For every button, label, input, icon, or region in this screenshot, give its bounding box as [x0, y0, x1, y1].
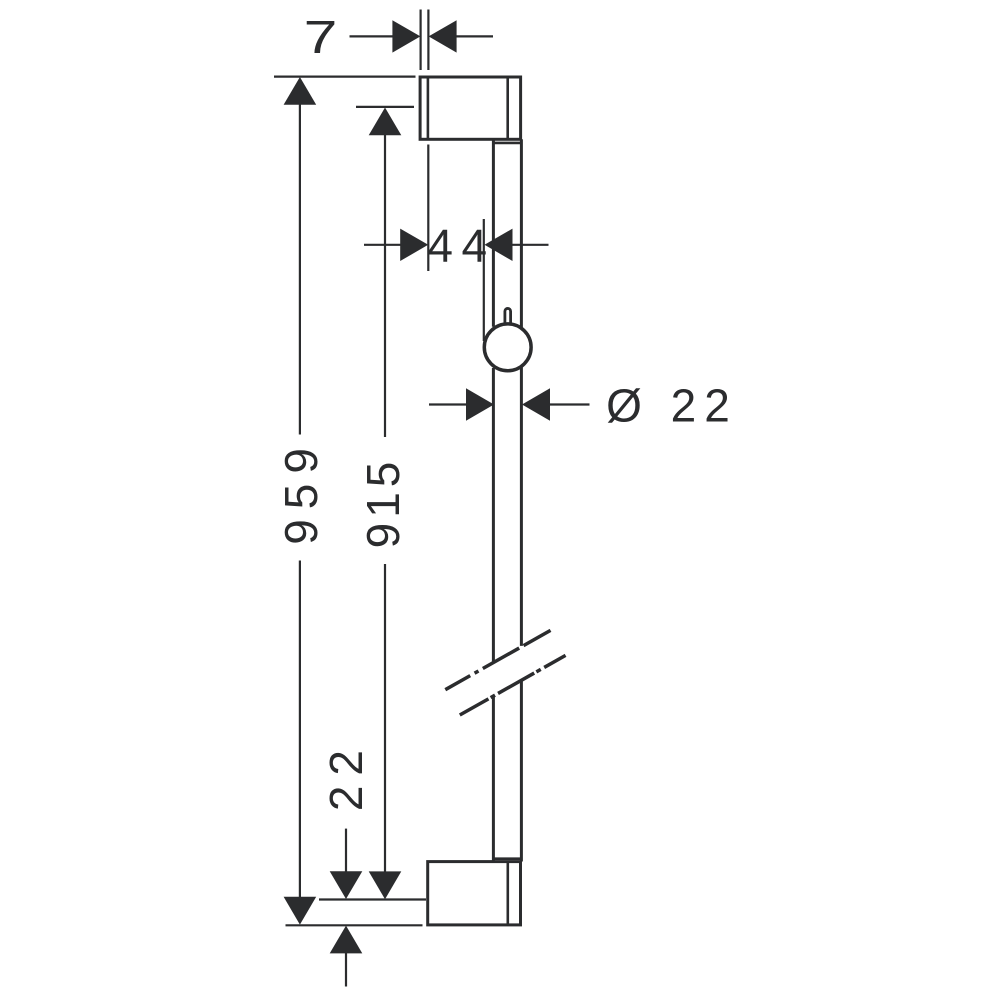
dim d22 right arrow (pointing right) [466, 388, 494, 420]
svg-text:44: 44 [427, 219, 495, 271]
dim 44 left tail [364, 244, 401, 246]
dim 7 right arrow (pointing right) [392, 20, 420, 52]
extension line 44 left (slider face) [483, 219, 485, 341]
rail right line [520, 139, 523, 861]
dimension label 7 [304, 12, 338, 63]
dim 915 down arrow [369, 871, 402, 899]
dim 44 right arrow (pointing right) [400, 229, 428, 261]
top bracket wall plate line [427, 77, 430, 139]
extension line 7 right [427, 10, 429, 71]
extension line 959 top [274, 75, 416, 77]
extension line 44 right (wall face) [427, 145, 429, 272]
dimension label 915 (rotated) [357, 457, 409, 549]
bottom bracket body [428, 862, 521, 925]
dimension label 959 (rotated) [275, 438, 327, 545]
svg-text:915: 915 [357, 457, 409, 549]
dimension label diameter 22 [606, 380, 738, 432]
dim 915 line upper segment [384, 135, 386, 438]
dim d22 left tail [429, 403, 467, 405]
bottom bracket inner right line [506, 862, 509, 925]
svg-text:22: 22 [320, 740, 372, 811]
dim 915 up arrow [369, 108, 402, 136]
extension line bottom bracket top (y 899.5) [319, 898, 426, 900]
rail left line [492, 139, 495, 861]
dim d22 left arrow (pointing left) [522, 388, 550, 420]
dimension label 22 (rotated) [320, 740, 372, 811]
dim 22 up arrow [330, 926, 363, 954]
dim 44 left arrow (pointing left) [485, 229, 513, 261]
bottom rail collar [492, 857, 521, 860]
svg-text:Ø 22: Ø 22 [606, 380, 738, 432]
extension line 915 top [356, 106, 414, 108]
dim 959 up arrow [284, 77, 317, 105]
extension line 7 left [420, 10, 422, 71]
dim 915 line lower segment [384, 564, 386, 872]
break line lower (dash-dot) [460, 655, 566, 715]
slider circle [484, 324, 531, 371]
dim 959 line upper segment [299, 104, 301, 435]
dim d22 right tail [549, 403, 590, 405]
dim 22 lower tail [345, 953, 347, 987]
slider knob pin [505, 308, 511, 324]
dim 22 down arrow [330, 871, 363, 899]
dim 22 upper line [345, 829, 347, 872]
dimension label 44 [427, 219, 495, 271]
dim 959 down arrow [284, 897, 317, 925]
dim 44 right tail [512, 244, 549, 246]
break line upper (dash-dot) [445, 630, 551, 690]
top bracket body [420, 77, 520, 139]
dim 7 right tail [456, 35, 493, 37]
top bracket inner right line [506, 77, 509, 139]
dim 959 line lower segment [299, 561, 301, 898]
svg-text:7: 7 [304, 12, 338, 63]
top rail collar [492, 142, 521, 145]
extension line bottom (y 925.3) [286, 924, 423, 926]
dim 7 left tail [350, 35, 394, 37]
dim 7 left arrow (pointing left) [429, 20, 457, 52]
svg-text:959: 959 [275, 438, 327, 545]
